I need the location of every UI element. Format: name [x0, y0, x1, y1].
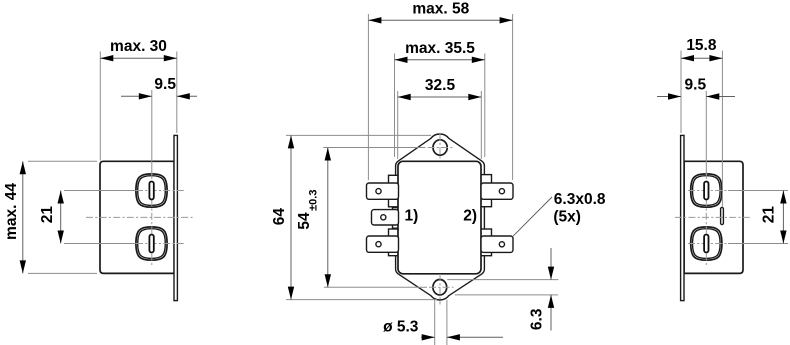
centerline vertical through terminals (right view): [705, 91, 707, 175]
tab right-top (center view): [481, 183, 513, 199]
svg-text:9.5: 9.5: [685, 77, 707, 94]
svg-text:1): 1): [405, 208, 419, 225]
svg-text:2): 2): [463, 208, 477, 225]
svg-text:54: 54: [296, 212, 313, 230]
tab hole right-top (center view): [499, 189, 504, 194]
centerline vertical through terminals (left view): [151, 90, 153, 175]
svg-text:max. 44: max. 44: [3, 183, 20, 240]
tab hole right-bottom (center view): [499, 242, 504, 247]
terminal bottom slot (left view): [149, 235, 153, 253]
terminal bottom inner ring (right view): [693, 229, 721, 259]
svg-text:(5x): (5x): [553, 209, 581, 226]
terminal top inner ring (left view): [138, 176, 166, 206]
body outline (left view): [100, 161, 174, 273]
centerline vertical through top hole (center view): [439, 134, 441, 161]
centerline horizontal bottom slot, ext of dim 54 (center view): [324, 286, 427, 288]
centerline vertical through bottom slot (center view): [439, 274, 441, 305]
svg-text:15.8: 15.8: [686, 37, 717, 54]
boss left-top (center view): [389, 175, 400, 207]
boss left-bottom (center view): [389, 229, 400, 256]
boss left-middle (center view): [393, 208, 400, 229]
terminal bottom inner ring (left view): [138, 229, 166, 259]
centerline terminal bottom row (right view): [688, 243, 728, 245]
terminal top inner ring (right view): [693, 176, 721, 206]
svg-text:ø 5.3: ø 5.3: [383, 318, 419, 335]
mounting flange plate (left view): [174, 135, 177, 300]
centerline horizontal top hole, ext of dim 54 (center view): [323, 147, 425, 149]
svg-text:64: 64: [271, 208, 288, 226]
svg-text:21: 21: [761, 206, 778, 224]
svg-text:max. 30: max. 30: [110, 38, 167, 55]
mounting flange plate (right view): [681, 135, 684, 300]
top mounting hole (center view): [433, 140, 447, 155]
centerline horizontal body mid (left view): [86, 216, 193, 218]
svg-text:±0.3: ±0.3: [308, 190, 320, 211]
terminal bottom outer ring (left view): [136, 227, 167, 260]
body outline (center view): [398, 161, 481, 273]
svg-text:6.3x0.8: 6.3x0.8: [554, 191, 606, 208]
terminal top outer ring (left view): [136, 174, 167, 207]
tab right-bottom (center view): [481, 236, 513, 252]
terminal top outer ring (right view): [691, 174, 722, 207]
middle faston tab edge-on (right view): [721, 207, 724, 224]
tab left-bottom (center view): [367, 236, 399, 252]
svg-text:21: 21: [39, 206, 56, 224]
svg-text:9.5: 9.5: [154, 76, 176, 93]
svg-text:6.3: 6.3: [529, 308, 546, 330]
tab left-top (center view): [367, 183, 399, 199]
centerline horizontal body mid (right view): [675, 216, 750, 218]
svg-text:max. 58: max. 58: [412, 0, 469, 17]
tab left-middle (center view): [372, 210, 399, 225]
tab hole left-bottom (center view): [376, 242, 381, 247]
boss right-bottom (center view): [481, 229, 492, 256]
terminal bottom slot (right view): [704, 235, 708, 253]
boss right-top (center view): [481, 175, 492, 207]
body outline (right view): [684, 161, 743, 273]
centerline terminal top row (left view): [64, 190, 136, 192]
tab hole left-top (center view): [376, 189, 381, 194]
terminal bottom outer ring (right view): [691, 227, 722, 260]
svg-text:max. 35.5: max. 35.5: [405, 40, 475, 57]
tab hole left-middle (center view): [381, 215, 386, 220]
terminal top slot (left view): [149, 182, 153, 200]
svg-text:32.5: 32.5: [425, 77, 456, 94]
mounting flange outline with triangular lugs (center view): [396, 134, 485, 300]
centerline terminal bottom row (left view): [64, 243, 136, 245]
terminal top slot (right view): [704, 182, 708, 200]
centerline terminal top row (right view): [688, 190, 728, 192]
bottom mounting slot (center view): [433, 280, 447, 295]
